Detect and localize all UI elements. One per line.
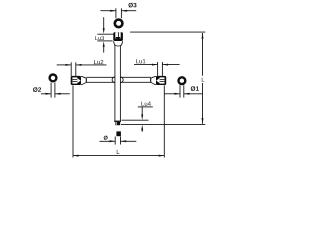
Lu1 extension tick left xyxy=(157,62,159,76)
d2 extension line left xyxy=(50,83,52,98)
Lu4 leader line xyxy=(138,106,153,108)
d1 extension line right xyxy=(183,85,185,97)
Lu2 dimension line left xyxy=(57,64,71,66)
d right arrowhead xyxy=(121,140,127,142)
right socket neck joint line xyxy=(150,78,152,83)
d3 extension line left xyxy=(115,8,117,18)
left socket neck xyxy=(81,76,86,85)
top socket ring (end view, d3) xyxy=(115,20,123,28)
right L top extension line xyxy=(130,31,205,33)
left socket neck joint line xyxy=(85,78,87,83)
right socket cone xyxy=(156,78,159,83)
left ring (end view, d2) xyxy=(50,75,57,82)
crossing hub bulge left xyxy=(112,77,115,83)
Lu3 lower arrow xyxy=(103,41,105,47)
bottom L right extension line xyxy=(163,85,165,157)
top socket shoulder taper xyxy=(114,41,116,45)
d3 dimension line right segment xyxy=(122,10,137,12)
Lu2 right arrowhead xyxy=(76,64,82,66)
left socket cone xyxy=(77,78,80,83)
d1 extension line left xyxy=(179,85,181,97)
Lu1 dimension line left xyxy=(134,64,157,66)
label Lu4 xyxy=(141,102,150,106)
vertical shaft left line xyxy=(114,45,116,121)
right ring (end view, d1) xyxy=(179,77,186,84)
d extension tick right xyxy=(120,137,122,145)
crossing hub bulge right xyxy=(120,77,123,83)
d1 dimension line left xyxy=(164,93,180,95)
square drive symbol xyxy=(116,131,121,136)
top socket body (front view) xyxy=(113,32,123,41)
Lu3 lower extension line xyxy=(97,40,112,42)
right socket opening xyxy=(160,77,165,83)
right L dimension line xyxy=(202,33,204,76)
d dimension line left xyxy=(100,140,115,142)
Lu3 upper extension line xyxy=(97,33,113,35)
d extension tick left xyxy=(114,137,116,145)
Lu3 upper arrow xyxy=(103,17,105,29)
horizontal arm left top line xyxy=(86,76,115,78)
label d1 xyxy=(191,86,199,91)
Lu2 extension tick right xyxy=(75,62,77,76)
Lu1 right arrowhead xyxy=(163,64,169,66)
horizontal arm right top line xyxy=(120,76,151,78)
left socket hex flat lines xyxy=(73,79,78,81)
Lu1 dimension line right xyxy=(163,64,180,66)
horizontal arm left bottom line xyxy=(86,81,115,83)
d2 dimension line left xyxy=(41,93,51,95)
label d2 xyxy=(33,87,41,92)
Lu4 upper extension line xyxy=(122,119,149,121)
d2 extension line right xyxy=(54,83,56,98)
lower extension line (bottom end of wrench) xyxy=(121,124,205,126)
d2 right arrowhead xyxy=(55,93,61,95)
bottom L left extension line xyxy=(72,85,74,157)
label Lu2 xyxy=(94,60,103,64)
d1 right arrowhead xyxy=(184,93,190,95)
bottom tip flange xyxy=(114,121,121,122)
top socket cone seat xyxy=(115,37,120,40)
Lu2 extension tick left xyxy=(70,62,72,76)
d2 dimension line right xyxy=(55,93,70,95)
left socket body xyxy=(71,76,81,85)
Lu4 upper arrow xyxy=(141,107,143,116)
d3 extension line right xyxy=(120,8,122,18)
bottom tip square drive block xyxy=(115,122,120,125)
label Lu3 xyxy=(95,36,104,40)
Lu2 dimension line right xyxy=(76,64,107,66)
top socket hex corner line xyxy=(117,32,119,37)
right socket neck xyxy=(151,76,156,85)
label Lu1 xyxy=(136,59,145,63)
vertical shaft right line xyxy=(119,45,121,121)
horizontal arm right bottom line xyxy=(120,81,151,83)
d1 dimension line right xyxy=(184,93,202,95)
left socket opening xyxy=(72,77,77,83)
d dimension line right xyxy=(121,140,137,142)
d3 right arrowhead xyxy=(122,10,128,12)
label L bottom xyxy=(117,150,120,154)
right socket body xyxy=(156,76,166,85)
label d3 xyxy=(128,3,136,8)
label d (shaft) xyxy=(104,136,108,140)
d3 left arrowhead xyxy=(110,10,116,12)
top socket opening xyxy=(115,32,120,38)
right socket hex flat lines xyxy=(160,79,165,81)
Lu1 extension tick right xyxy=(161,62,163,76)
Lu4 lower arrow xyxy=(141,125,143,131)
d3 dimension line left segment xyxy=(100,10,115,12)
bottom L dimension line xyxy=(73,155,164,157)
label L right (rotated) xyxy=(202,78,205,82)
